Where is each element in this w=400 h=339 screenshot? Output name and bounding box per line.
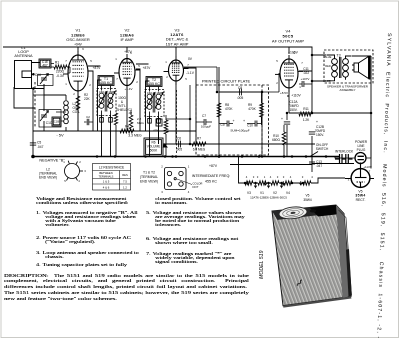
wire junction	[96, 155, 99, 158]
resistor R9	[260, 92, 264, 125]
capacitor C12B electrolytic	[309, 113, 315, 156]
wire heater feed	[239, 157, 346, 184]
wire extra detector network	[159, 102, 197, 144]
wire left riser	[14, 84, 44, 157]
resistor R11	[299, 112, 312, 116]
resistor R7	[192, 142, 215, 146]
tube V2 12BA6 envelope	[114, 54, 140, 90]
wire junction	[325, 155, 328, 158]
capacitor C11	[299, 81, 312, 87]
wire gang link dashed	[34, 82, 36, 127]
wire junction	[241, 155, 244, 158]
wire lower line	[163, 144, 315, 165]
capacitor C8	[240, 89, 242, 96]
wire plug connections	[312, 113, 371, 169]
printed circuit plate dashed box	[196, 85, 269, 155]
resistor heater V4	[284, 181, 292, 185]
capacitor C7	[196, 119, 212, 125]
capacitor C1A tuning	[40, 74, 49, 85]
wire junction	[291, 155, 294, 158]
wire heater junctions	[254, 182, 257, 185]
transformer T2	[146, 77, 162, 87]
wire detector output	[166, 85, 190, 154]
inductor L2 osc coil	[64, 101, 69, 124]
capacitor C6	[167, 141, 187, 148]
tube V4 50C5 envelope	[275, 55, 303, 92]
wire junction	[283, 155, 286, 158]
wire heater junction arrows	[247, 181, 303, 185]
wire negative B bus	[33, 156, 340, 158]
potentiometer R6 volume	[144, 138, 167, 156]
transformer T3 windings	[327, 55, 352, 81]
resistor R4a AVC vertical	[129, 110, 133, 131]
wire +110V line	[289, 112, 371, 114]
capacitor C10	[247, 117, 262, 127]
wire junction	[171, 155, 174, 158]
capacitor C9	[219, 117, 233, 127]
wire V4 grid	[262, 73, 279, 156]
resistor heater V5	[303, 181, 311, 185]
resistor R10	[282, 125, 286, 156]
wire junction	[305, 155, 308, 158]
tube V3 12AT6 envelope	[164, 56, 189, 85]
trimmer C1B box	[52, 117, 61, 126]
wire T2 secondaries	[146, 81, 159, 157]
wire T1 secondaries	[98, 80, 111, 157]
radio cabinet photo	[272, 204, 352, 308]
wire V3 plate coupling	[184, 67, 219, 92]
resistor heater V2	[271, 181, 279, 185]
wire junction	[218, 155, 221, 158]
wire V3 connections	[176, 68, 196, 144]
wire junction	[144, 155, 147, 158]
resistor R8	[217, 103, 221, 117]
wire junction	[164, 155, 167, 158]
antenna L1 loop	[15, 61, 45, 89]
resistor R5	[164, 120, 168, 157]
node osc trimmer enclosure	[38, 75, 62, 128]
resistor R2	[76, 92, 80, 131]
table L2 resistance	[93, 164, 131, 191]
capacitor C12A electrolytic	[284, 113, 290, 156]
wire V4 plate/cathode	[287, 71, 312, 113]
wire junction	[114, 155, 117, 158]
capacitor C2	[84, 119, 93, 125]
wire junction	[175, 155, 178, 158]
capacitor C4	[156, 119, 162, 126]
wire osc section	[44, 95, 66, 131]
node side imprint SYLVANIA	[375, 33, 392, 339]
wire speaker connections	[312, 52, 371, 113]
wire extra V1 grid network	[33, 64, 70, 122]
wire V2 plate	[127, 64, 149, 131]
wire AVC line -5V	[33, 130, 196, 132]
capacitor C5	[30, 143, 36, 145]
wire V1 plate to T1	[78, 66, 101, 131]
capacitor C1C osc tuning	[40, 111, 49, 122]
transformer T1	[98, 76, 114, 86]
tube V1 12BE6 envelope	[63, 51, 93, 95]
wire junction	[204, 155, 207, 158]
resistor heater V1	[258, 181, 266, 185]
resistor R1	[51, 65, 70, 69]
transformer T3 dashed assembly box	[324, 50, 373, 83]
capacitor C1E	[39, 59, 51, 68]
tube V5 rectifier	[351, 169, 370, 188]
wire junction	[258, 155, 261, 158]
wire B+ top distribution	[3, 47, 312, 56]
speaker	[352, 56, 370, 80]
wire rect to heater	[312, 113, 371, 169]
resistor R4 3.3MEG	[120, 129, 134, 133]
wire C8 frame	[219, 67, 262, 157]
capacitor C13	[309, 157, 315, 173]
resistor heater V3	[245, 181, 253, 185]
